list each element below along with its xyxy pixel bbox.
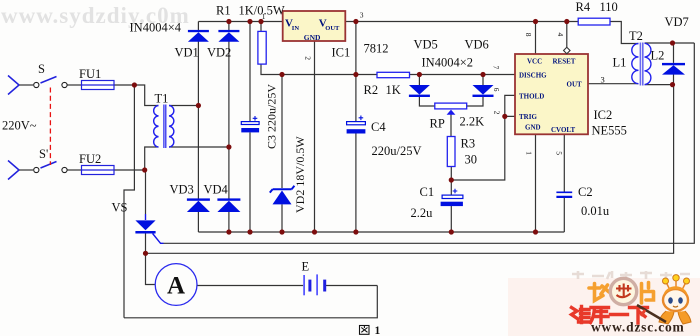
svg-text:IN4004×2: IN4004×2 bbox=[422, 56, 474, 70]
caption fig glyph bbox=[360, 326, 370, 335]
svg-text:4: 4 bbox=[556, 33, 565, 37]
node FU1 junction bbox=[132, 82, 137, 87]
wire L2 top bbox=[645, 42, 695, 44]
AC input fork terminal top bbox=[8, 76, 19, 95]
node VD5 anode bbox=[417, 72, 422, 77]
char ku bbox=[591, 308, 609, 323]
wire R2 to IC2 pin7 bbox=[410, 74, 516, 76]
svg-text:3: 3 bbox=[601, 75, 605, 85]
wire VD5 branch bbox=[419, 75, 434, 107]
node RESET top bbox=[564, 19, 569, 24]
IC2 inner labels bbox=[519, 58, 582, 134]
diode VD6 bbox=[473, 85, 494, 97]
svg-text:E: E bbox=[302, 260, 310, 274]
capacitor C2 bbox=[556, 192, 572, 197]
thyristor VS bbox=[135, 214, 163, 243]
wire 12V rail to R2 bbox=[282, 74, 377, 76]
diode VD7 bbox=[662, 63, 685, 75]
svg-text:C1: C1 bbox=[420, 185, 435, 199]
svg-text:1: 1 bbox=[262, 12, 266, 21]
wire IC2 OUT to L1 bottom bbox=[588, 83, 639, 85]
switch S bbox=[34, 77, 67, 88]
node L2 bottom VD7 bbox=[670, 82, 675, 87]
wire R1 column bbox=[261, 22, 282, 75]
wire VS cathode rail bbox=[146, 85, 674, 254]
svg-text:FU1: FU1 bbox=[79, 67, 101, 81]
wire C1 bottom bbox=[450, 206, 452, 232]
svg-text:220u/25V: 220u/25V bbox=[372, 144, 422, 158]
node L2 top VD7 bbox=[670, 40, 675, 45]
switch S' bbox=[34, 162, 67, 173]
wire R4 to T2 L1 top bbox=[610, 22, 639, 44]
wire top rail left bbox=[198, 21, 282, 23]
potentiometer RP bbox=[435, 103, 467, 115]
node C1 ground bbox=[449, 229, 454, 234]
svg-text:1: 1 bbox=[525, 151, 534, 155]
wire FU1 to node bbox=[114, 84, 134, 86]
resistor R3 bbox=[447, 137, 455, 167]
svg-text:IN4004×4: IN4004×4 bbox=[130, 21, 182, 35]
capacitor C4 bbox=[347, 116, 366, 134]
svg-text:VD7: VD7 bbox=[665, 15, 689, 29]
logo text weiku red bbox=[572, 307, 648, 324]
transformer T2 bbox=[632, 43, 651, 86]
diode VD2 bbox=[218, 30, 239, 42]
svg-text:NE555: NE555 bbox=[592, 124, 627, 138]
ammeter A bbox=[155, 264, 197, 306]
wire switch S to FU1 bbox=[68, 84, 82, 86]
RESET pin circle bbox=[564, 47, 571, 54]
node zener ground bbox=[279, 229, 284, 234]
wire C4 column bbox=[355, 22, 357, 233]
svg-text:7812: 7812 bbox=[364, 42, 389, 56]
svg-text:VCC: VCC bbox=[527, 58, 542, 66]
svg-text:VD2: VD2 bbox=[207, 46, 231, 60]
node VD6 anode bbox=[480, 72, 485, 77]
svg-text:VD6: VD6 bbox=[465, 38, 489, 52]
wire fork2 to switch S' bbox=[19, 169, 33, 171]
wire fork1 to switch S bbox=[19, 84, 33, 86]
svg-text:IC2: IC2 bbox=[594, 108, 613, 122]
node R3 C1 bbox=[449, 177, 454, 182]
svg-text:L2: L2 bbox=[651, 49, 665, 63]
wire T1 secondary bottom to node bbox=[169, 146, 229, 148]
svg-text:R4: R4 bbox=[576, 0, 591, 14]
node IC1 ground bbox=[312, 229, 317, 234]
diode VD1 bbox=[188, 30, 209, 42]
svg-text:R3: R3 bbox=[461, 137, 476, 151]
svg-text:8: 8 bbox=[524, 33, 533, 37]
node TRIG bbox=[502, 114, 507, 119]
svg-text:R1: R1 bbox=[216, 4, 231, 18]
wire L2 bottom bbox=[645, 84, 673, 86]
svg-text:C3 220u/25V: C3 220u/25V bbox=[265, 84, 279, 149]
svg-text:220V~: 220V~ bbox=[2, 119, 37, 133]
svg-text:GND: GND bbox=[525, 124, 541, 132]
wire RP wiper stem bbox=[450, 115, 452, 137]
wire VD7 cathode stub bbox=[673, 43, 675, 63]
svg-text:S': S' bbox=[39, 147, 48, 161]
capacitor C1 bbox=[441, 189, 463, 206]
fuse FU1 bbox=[82, 81, 115, 90]
svg-text:1K: 1K bbox=[386, 83, 401, 97]
wire VD7 anode stub bbox=[673, 74, 675, 84]
svg-text:www.dzsc.com: www.dzsc.com bbox=[591, 320, 685, 335]
capacitor C3 bbox=[241, 116, 259, 132]
diode VD5 bbox=[409, 85, 430, 97]
battery E bbox=[304, 274, 325, 295]
node C3 ground bbox=[247, 229, 252, 234]
svg-text:OUT: OUT bbox=[567, 81, 583, 89]
node secondary top bbox=[196, 103, 201, 108]
wire VS gate rail bbox=[164, 43, 695, 243]
char yi bbox=[611, 313, 628, 316]
svg-text:1: 1 bbox=[375, 325, 381, 336]
diode VD3 bbox=[187, 198, 210, 212]
logo magnifier bbox=[610, 278, 636, 304]
logo ghost row bbox=[572, 271, 690, 279]
resistor R4 bbox=[578, 18, 610, 25]
node C4 top bbox=[353, 72, 358, 77]
wire node to T1 primary top bbox=[134, 85, 158, 106]
resistor R1 bbox=[258, 31, 266, 64]
node FU2 junction bbox=[142, 167, 147, 172]
wire T1 primary bottom bbox=[145, 147, 159, 170]
wire VD6 branch bbox=[467, 75, 483, 107]
wire node down left column bbox=[124, 85, 134, 318]
svg-text:THOLD: THOLD bbox=[519, 93, 544, 101]
logo char zhao bbox=[589, 284, 609, 301]
svg-text:TRIG: TRIG bbox=[519, 113, 537, 121]
resistor R2 bbox=[377, 72, 410, 77]
svg-text:C4: C4 bbox=[371, 120, 386, 134]
svg-text:VD2 18V/0.5W: VD2 18V/0.5W bbox=[293, 136, 307, 213]
logo mascot bbox=[637, 275, 691, 324]
wire IC2 RESET bbox=[566, 22, 568, 49]
node C3 top bbox=[247, 19, 252, 24]
svg-text:L1: L1 bbox=[613, 56, 627, 70]
wire VS cathode to ammeter bbox=[146, 253, 156, 284]
diode VD4 bbox=[217, 198, 240, 212]
timer IC2 NE555 bbox=[515, 54, 588, 134]
svg-text:2: 2 bbox=[493, 111, 502, 115]
svg-text:VD4: VD4 bbox=[204, 183, 229, 197]
wire FU2 to node bbox=[114, 169, 145, 171]
svg-text:VS: VS bbox=[112, 201, 128, 215]
wire ammeter to battery bbox=[197, 285, 303, 287]
svg-text:GND: GND bbox=[304, 33, 321, 42]
wire top rail right bbox=[345, 21, 578, 23]
svg-text:IN: IN bbox=[292, 25, 300, 32]
char wei bbox=[572, 307, 591, 323]
wire IC2 CVOLT to C2 bbox=[563, 134, 565, 232]
svg-text:0.01u: 0.01u bbox=[581, 204, 610, 218]
node R1 bottom bbox=[279, 72, 284, 77]
node IC2 ground bbox=[533, 229, 538, 234]
svg-text:A: A bbox=[167, 273, 185, 300]
gang link dashed bbox=[49, 88, 51, 166]
node IC1 out bbox=[353, 19, 358, 24]
svg-text:S: S bbox=[38, 62, 45, 76]
node secondary bottom bbox=[226, 144, 231, 149]
svg-text:VD1: VD1 bbox=[175, 46, 199, 60]
wire switch S' to FU2 bbox=[68, 169, 82, 171]
AC input fork terminal bottom bbox=[8, 161, 19, 180]
wire VS cathode down bbox=[145, 233, 147, 253]
svg-text:VD3: VD3 bbox=[170, 183, 194, 197]
svg-text:C2: C2 bbox=[578, 185, 593, 199]
svg-text:R2: R2 bbox=[364, 83, 379, 97]
IC1 inner labels bbox=[285, 18, 340, 42]
node VS cathode bbox=[143, 251, 148, 256]
svg-text:3: 3 bbox=[360, 11, 364, 20]
wire T1 secondary top to node bbox=[169, 105, 198, 107]
node VD2 top bbox=[226, 19, 231, 24]
svg-text:CVOLT: CVOLT bbox=[551, 126, 575, 134]
svg-text:110: 110 bbox=[600, 0, 618, 14]
wire C3 column bbox=[249, 22, 251, 233]
wire trig-thold link bbox=[451, 95, 515, 180]
pin numbers bbox=[262, 11, 605, 156]
node VCC top bbox=[533, 19, 538, 24]
svg-text:RP: RP bbox=[430, 117, 445, 131]
svg-text:IC1: IC1 bbox=[332, 46, 351, 60]
node VD4 ground bbox=[226, 229, 231, 234]
svg-text:T2: T2 bbox=[629, 29, 643, 43]
svg-text:RESET: RESET bbox=[553, 58, 576, 66]
svg-text:5: 5 bbox=[555, 151, 564, 155]
wire VD1 column bbox=[197, 22, 199, 233]
wire R3 to C1 bbox=[450, 167, 452, 196]
wire VS anode bbox=[145, 170, 147, 214]
wire IC1 GND column bbox=[314, 41, 316, 232]
svg-text:FU2: FU2 bbox=[79, 152, 101, 166]
zener diode VD2 18V bbox=[270, 186, 295, 205]
logo char pian bbox=[642, 283, 654, 304]
svg-text:2: 2 bbox=[303, 56, 312, 60]
svg-text:30: 30 bbox=[465, 153, 478, 167]
wire ground rail bbox=[198, 231, 564, 233]
wire battery right bbox=[325, 285, 378, 287]
svg-text:2.2u: 2.2u bbox=[411, 206, 434, 220]
svg-text:2.2K: 2.2K bbox=[460, 115, 485, 129]
svg-text:T1: T1 bbox=[155, 92, 169, 106]
wire IC2 GND column bbox=[535, 134, 537, 232]
svg-text:OUT: OUT bbox=[325, 25, 340, 32]
logo band bbox=[508, 278, 700, 336]
svg-text:6: 6 bbox=[492, 88, 501, 92]
wire bottom return bbox=[124, 286, 377, 318]
svg-text:7: 7 bbox=[492, 66, 501, 70]
wire zener column bbox=[281, 75, 283, 233]
svg-text:VD5: VD5 bbox=[414, 38, 438, 52]
node C4 ground bbox=[353, 229, 358, 234]
wire VD2 column bbox=[228, 22, 230, 233]
transformer T1 bbox=[154, 105, 174, 149]
svg-text:DISCHG: DISCHG bbox=[519, 72, 547, 80]
regulator IC1 7812 bbox=[283, 11, 346, 41]
wire IC2 VCC bbox=[535, 22, 537, 55]
node R1 top bbox=[258, 19, 263, 24]
char xia bbox=[630, 308, 648, 324]
fuse FU2 bbox=[82, 166, 115, 175]
